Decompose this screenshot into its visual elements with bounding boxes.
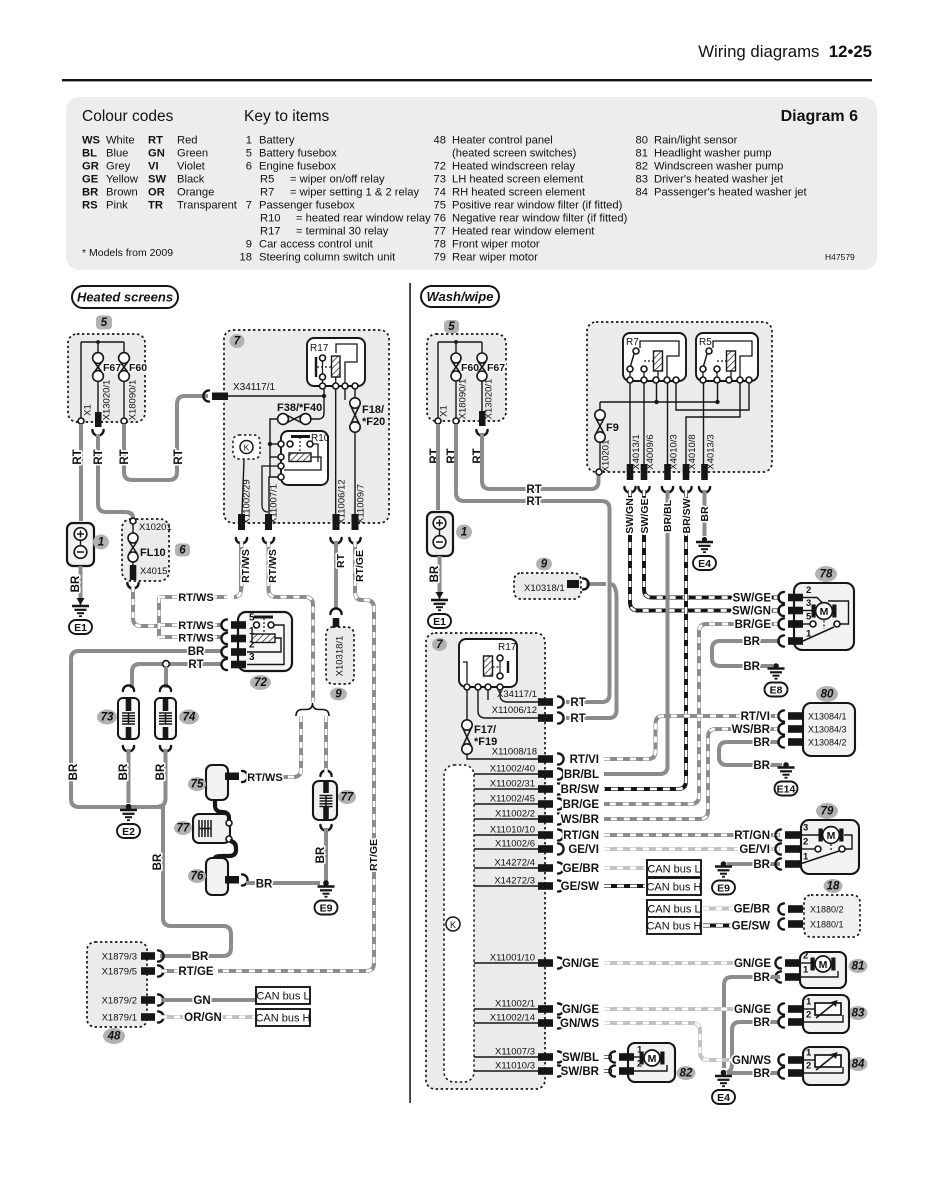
svg-text:76: 76 [191, 871, 204, 883]
svg-text:1: 1 [461, 527, 467, 539]
svg-text:X1879/2: X1879/2 [102, 996, 137, 1007]
svg-text:Heated rear window element: Heated rear window element [452, 226, 595, 238]
svg-text:6: 6 [179, 545, 186, 557]
svg-text:X4015: X4015 [140, 566, 167, 577]
svg-text:Key to items: Key to items [244, 108, 330, 125]
svg-text:Wiring diagrams 12•25: Wiring diagrams 12•25 [698, 42, 872, 61]
svg-text:X4010/3: X4010/3 [669, 434, 680, 469]
svg-text:X4009/6: X4009/6 [645, 434, 656, 469]
svg-text:Heated screens: Heated screens [77, 290, 173, 305]
svg-text:X10201: X10201 [601, 440, 612, 473]
svg-text:RS: RS [82, 200, 98, 212]
svg-text:RT: RT [570, 697, 585, 709]
svg-text:X11002/45: X11002/45 [490, 794, 535, 805]
svg-text:RT: RT [93, 449, 105, 464]
svg-text:X18090/1: X18090/1 [458, 379, 469, 420]
svg-text:RT/WS: RT/WS [267, 549, 279, 583]
svg-text:RT: RT [526, 484, 541, 496]
svg-text:Violet: Violet [177, 161, 206, 173]
svg-text:M: M [820, 606, 829, 618]
svg-text:76: 76 [434, 213, 446, 225]
svg-text:77: 77 [341, 792, 354, 804]
svg-text:RT: RT [188, 659, 203, 671]
svg-text:3: 3 [803, 823, 808, 834]
svg-text:78: 78 [434, 239, 446, 251]
svg-text:RT/WS: RT/WS [247, 772, 282, 784]
svg-text:78: 78 [820, 569, 833, 581]
svg-text:E9: E9 [717, 882, 730, 894]
svg-text:BR: BR [743, 661, 760, 673]
svg-text:2: 2 [806, 585, 811, 596]
svg-text:E4: E4 [717, 1092, 730, 1104]
svg-text:E2: E2 [122, 826, 135, 838]
svg-text:H47579: H47579 [825, 252, 855, 262]
svg-text:GN: GN [193, 995, 210, 1007]
svg-text:9: 9 [335, 689, 342, 701]
svg-text:BR: BR [429, 565, 441, 582]
svg-text:2: 2 [803, 951, 808, 962]
svg-text:84: 84 [852, 1059, 865, 1071]
svg-text:SW/GE: SW/GE [639, 498, 651, 533]
svg-text:GN/GE: GN/GE [734, 1004, 771, 1016]
svg-text:* Models from 2009: * Models from 2009 [82, 247, 173, 259]
svg-text:X1879/3: X1879/3 [102, 952, 137, 963]
svg-text:BR: BR [315, 846, 327, 863]
svg-text:E14: E14 [777, 783, 796, 795]
svg-text:81: 81 [636, 148, 648, 160]
svg-text:R17: R17 [310, 343, 329, 354]
svg-text:RT/WS: RT/WS [178, 620, 213, 632]
svg-text:= terminal 30 relay: = terminal 30 relay [296, 226, 389, 238]
svg-text:3: 3 [249, 652, 255, 663]
svg-text:X11002/6: X11002/6 [495, 839, 535, 850]
svg-text:R10: R10 [311, 433, 330, 444]
svg-text:1: 1 [98, 537, 104, 549]
svg-text:RT/WS: RT/WS [178, 633, 213, 645]
svg-text:RT/WS: RT/WS [240, 549, 252, 583]
svg-text:9: 9 [541, 559, 548, 571]
svg-text:GE: GE [82, 174, 99, 186]
svg-text:GN/WS: GN/WS [560, 1018, 599, 1030]
svg-text:BR/GE: BR/GE [563, 799, 600, 811]
svg-text:2: 2 [806, 1061, 811, 1072]
svg-text:GE/SW: GE/SW [561, 881, 599, 893]
svg-text:BR: BR [753, 737, 770, 749]
svg-text:X11002/14: X11002/14 [490, 1013, 535, 1024]
svg-text:GN/GE: GN/GE [562, 958, 599, 970]
svg-text:X10318/1: X10318/1 [335, 636, 346, 677]
svg-text:RT: RT [173, 449, 185, 464]
svg-text:X11002/2: X11002/2 [495, 809, 535, 820]
svg-text:80: 80 [636, 135, 648, 147]
svg-text:X11008/18: X11008/18 [492, 747, 537, 758]
svg-text:X11007/3: X11007/3 [495, 1047, 535, 1058]
svg-text:CAN bus H: CAN bus H [646, 882, 701, 894]
svg-text:BL: BL [82, 148, 97, 160]
svg-text:RT: RT [72, 449, 84, 464]
svg-text:83: 83 [852, 1008, 865, 1020]
svg-text:48: 48 [107, 1031, 121, 1043]
svg-text:Rear wiper motor: Rear wiper motor [452, 252, 538, 264]
svg-text:Battery: Battery [259, 135, 295, 147]
svg-text:Heated windscreen relay: Heated windscreen relay [452, 161, 576, 173]
svg-text:E8: E8 [770, 684, 783, 696]
svg-text:RT: RT [119, 449, 131, 464]
svg-text:R17: R17 [498, 642, 517, 653]
svg-text:Grey: Grey [106, 161, 131, 173]
svg-text:Steering column switch unit: Steering column switch unit [259, 252, 396, 264]
svg-text:18: 18 [240, 252, 252, 264]
svg-text:75: 75 [191, 779, 204, 791]
svg-text:E1: E1 [74, 622, 87, 634]
svg-text:3: 3 [806, 598, 811, 609]
svg-text:M: M [819, 959, 828, 971]
svg-text:RH heated screen element: RH heated screen element [452, 187, 586, 199]
svg-text:RT/VI: RT/VI [570, 754, 599, 766]
svg-text:X1: X1 [83, 404, 94, 416]
svg-text:1: 1 [803, 965, 809, 976]
svg-text:GE/SW: GE/SW [732, 921, 770, 933]
svg-text:E4: E4 [698, 558, 711, 570]
svg-text:K: K [244, 443, 250, 453]
svg-text:7: 7 [436, 639, 443, 651]
svg-text:GR: GR [82, 161, 99, 173]
svg-text:SW/BL: SW/BL [562, 1052, 599, 1064]
svg-text:Blue: Blue [106, 148, 128, 160]
svg-text:F67: F67 [487, 362, 505, 374]
svg-text:CAN bus L: CAN bus L [256, 991, 309, 1003]
svg-text:7: 7 [234, 336, 241, 348]
svg-text:X11010/10: X11010/10 [490, 825, 535, 836]
svg-text:Passenger fusebox: Passenger fusebox [259, 200, 355, 212]
svg-text:BR: BR [155, 763, 167, 780]
svg-text:X13084/3: X13084/3 [808, 725, 847, 735]
svg-text:Colour codes: Colour codes [82, 108, 174, 125]
svg-text:BR: BR [753, 859, 770, 871]
svg-text:GE/BR: GE/BR [563, 863, 600, 875]
svg-text:Driver's heated washer jet: Driver's heated washer jet [654, 174, 784, 186]
svg-text:5: 5 [101, 317, 108, 329]
svg-text:X14272/3: X14272/3 [494, 876, 535, 887]
svg-text:Diagram 6: Diagram 6 [781, 108, 858, 125]
svg-text:Battery fusebox: Battery fusebox [259, 148, 337, 160]
svg-text:X11010/3: X11010/3 [495, 1061, 535, 1072]
svg-text:CAN bus L: CAN bus L [647, 864, 700, 876]
svg-text:RT: RT [335, 553, 347, 568]
svg-text:80: 80 [821, 689, 834, 701]
svg-text:X13020/1: X13020/1 [102, 380, 113, 421]
svg-text:F38/*F40: F38/*F40 [277, 402, 322, 414]
svg-text:Wash/wipe: Wash/wipe [427, 289, 494, 304]
svg-text:CAN bus H: CAN bus H [646, 921, 701, 933]
svg-text:RT/WS: RT/WS [178, 592, 213, 604]
svg-text:CAN bus H: CAN bus H [255, 1013, 310, 1025]
svg-text:75: 75 [434, 200, 446, 212]
svg-text:BR: BR [753, 1068, 770, 1080]
svg-text:82: 82 [636, 161, 648, 173]
svg-text:E1: E1 [433, 616, 446, 628]
svg-text:74: 74 [434, 187, 446, 199]
svg-text:73: 73 [434, 174, 446, 186]
svg-text:R5: R5 [699, 337, 712, 348]
svg-text:79: 79 [821, 806, 834, 818]
svg-text:SW/GN: SW/GN [732, 606, 771, 618]
svg-text:BR/SW: BR/SW [681, 498, 693, 533]
svg-text:RT/VI: RT/VI [741, 711, 770, 723]
svg-text:X1: X1 [439, 405, 450, 417]
svg-text:X11009/7: X11009/7 [356, 484, 367, 524]
svg-text:R7: R7 [260, 187, 274, 199]
svg-text:F18/: F18/ [362, 404, 384, 416]
svg-text:BR: BR [753, 760, 770, 772]
svg-text:X1880/1: X1880/1 [810, 920, 844, 930]
svg-text:SW: SW [148, 174, 166, 186]
svg-text:X4010/8: X4010/8 [687, 434, 698, 469]
svg-text:F67: F67 [103, 362, 121, 374]
svg-text:X1879/1: X1879/1 [102, 1013, 137, 1024]
svg-text:M: M [648, 1053, 657, 1065]
svg-text:LH heated screen element: LH heated screen element [452, 174, 584, 186]
svg-text:OR/GN: OR/GN [184, 1012, 222, 1024]
svg-text:Yellow: Yellow [106, 174, 139, 186]
svg-text:81: 81 [852, 961, 865, 973]
svg-text:RT/GN: RT/GN [563, 830, 599, 842]
svg-text:R17: R17 [260, 226, 281, 238]
svg-text:X18090/1: X18090/1 [128, 380, 139, 421]
svg-text:BR/BL: BR/BL [662, 499, 674, 532]
svg-text:WS/BR: WS/BR [732, 724, 771, 736]
svg-text:F60: F60 [129, 362, 147, 374]
svg-text:BR: BR [699, 506, 711, 522]
svg-text:RT: RT [526, 496, 541, 508]
svg-text:RT/GN: RT/GN [734, 830, 770, 842]
svg-text:Green: Green [177, 148, 208, 160]
svg-text:FL10: FL10 [140, 547, 166, 559]
svg-text:BR/GE: BR/GE [735, 619, 772, 631]
svg-text:BR: BR [152, 853, 164, 870]
svg-text:X11007/1: X11007/1 [269, 484, 280, 524]
svg-text:X11002/40: X11002/40 [490, 764, 535, 775]
svg-text:R5: R5 [260, 174, 274, 186]
svg-text:BR/SW: BR/SW [561, 784, 599, 796]
svg-text:79: 79 [434, 252, 446, 264]
svg-text:BR/BL: BR/BL [564, 769, 599, 781]
svg-text:Red: Red [177, 135, 198, 147]
svg-text:R10: R10 [260, 213, 281, 225]
svg-text:1: 1 [806, 997, 812, 1008]
svg-text:2: 2 [806, 1010, 811, 1021]
svg-text:M: M [827, 830, 836, 842]
svg-text:Brown: Brown [106, 187, 138, 199]
svg-text:BR: BR [188, 646, 205, 658]
svg-text:OR: OR [148, 187, 165, 199]
svg-text:GN/WS: GN/WS [732, 1055, 771, 1067]
svg-text:GE/BR: GE/BR [734, 904, 771, 916]
svg-text:5: 5 [448, 321, 455, 333]
svg-text:BR: BR [70, 575, 82, 592]
svg-text:77: 77 [177, 823, 190, 835]
svg-text:X11001/10: X11001/10 [490, 953, 535, 964]
svg-text:K: K [450, 920, 456, 930]
svg-text:X11006/12: X11006/12 [492, 705, 537, 716]
svg-text:Windscreen washer pump: Windscreen washer pump [654, 161, 783, 173]
svg-text:RT: RT [570, 713, 585, 725]
svg-text:X1880/2: X1880/2 [810, 905, 844, 915]
svg-text:82: 82 [680, 1068, 693, 1080]
svg-text:18: 18 [827, 881, 840, 893]
svg-text:White: White [106, 135, 135, 147]
svg-text:X14272/4: X14272/4 [494, 858, 535, 869]
svg-text:= wiper setting 1 & 2 relay: = wiper setting 1 & 2 relay [290, 187, 419, 199]
svg-text:7: 7 [246, 200, 252, 212]
svg-text:X13084/1: X13084/1 [808, 712, 847, 722]
svg-text:RT/GE: RT/GE [178, 966, 213, 978]
svg-text:X11002/29: X11002/29 [242, 479, 253, 524]
svg-text:Pink: Pink [106, 200, 128, 212]
svg-text:Passenger's heated washer jet: Passenger's heated washer jet [654, 187, 808, 199]
svg-text:BR: BR [68, 763, 80, 780]
svg-text:X11002/1: X11002/1 [495, 999, 535, 1010]
svg-text:X10201: X10201 [139, 522, 172, 533]
svg-text:GE/VI: GE/VI [739, 844, 770, 856]
svg-text:GN/GE: GN/GE [734, 958, 771, 970]
svg-text:X4013/3: X4013/3 [706, 434, 717, 469]
svg-text:R7: R7 [626, 337, 639, 348]
svg-text:84: 84 [636, 187, 648, 199]
svg-text:F17/: F17/ [474, 724, 496, 736]
svg-text:5: 5 [246, 148, 252, 160]
svg-text:F60: F60 [461, 362, 479, 374]
svg-text:RT: RT [148, 135, 163, 147]
svg-text:72: 72 [254, 677, 267, 689]
svg-text:X1879/5: X1879/5 [102, 967, 137, 978]
svg-text:X10318/1: X10318/1 [524, 583, 565, 594]
svg-text:F9: F9 [606, 422, 619, 434]
svg-text:1: 1 [806, 1048, 812, 1059]
svg-text:77: 77 [434, 226, 446, 238]
svg-text:(heated screen switches): (heated screen switches) [452, 148, 577, 160]
svg-text:TR: TR [148, 200, 163, 212]
svg-text:1: 1 [246, 135, 252, 147]
svg-text:Transparent: Transparent [177, 200, 238, 212]
svg-text:72: 72 [434, 161, 446, 173]
svg-text:BR: BR [118, 763, 130, 780]
svg-text:BR: BR [82, 187, 98, 199]
svg-text:Black: Black [177, 174, 205, 186]
svg-text:CAN bus L: CAN bus L [647, 904, 700, 916]
svg-text:BR: BR [192, 951, 209, 963]
svg-text:RT/GE: RT/GE [354, 550, 366, 582]
svg-text:Car access control unit: Car access control unit [259, 239, 374, 251]
svg-text:Headlight washer pump: Headlight washer pump [654, 148, 772, 160]
svg-text:74: 74 [183, 712, 196, 724]
svg-text:Engine fusebox: Engine fusebox [259, 161, 337, 173]
svg-text:= heated rear window relay: = heated rear window relay [296, 213, 431, 225]
svg-text:SW/BR: SW/BR [561, 1066, 600, 1078]
svg-text:BR: BR [753, 1017, 770, 1029]
svg-text:BR: BR [753, 972, 770, 984]
svg-text:WS: WS [82, 135, 101, 147]
svg-text:X34117/1: X34117/1 [497, 689, 537, 700]
svg-text:BR: BR [743, 636, 760, 648]
svg-text:VI: VI [148, 161, 159, 173]
svg-text:2: 2 [803, 837, 808, 848]
svg-text:Orange: Orange [177, 187, 214, 199]
svg-text:GN/GE: GN/GE [562, 1004, 599, 1016]
svg-text:BR: BR [256, 879, 273, 891]
svg-text:48: 48 [434, 135, 446, 147]
svg-text:83: 83 [636, 174, 648, 186]
svg-text:SW/GE: SW/GE [733, 593, 772, 605]
svg-text:WS/BR: WS/BR [561, 814, 600, 826]
svg-text:X13084/2: X13084/2 [808, 738, 847, 748]
svg-text:Negative rear window filter (i: Negative rear window filter (if fitted) [452, 213, 628, 225]
svg-text:X11002/31: X11002/31 [490, 779, 535, 790]
svg-text:Front wiper motor: Front wiper motor [452, 239, 540, 251]
svg-text:Rain/light sensor: Rain/light sensor [654, 135, 738, 147]
svg-text:9: 9 [246, 239, 252, 251]
svg-text:GE/VI: GE/VI [568, 844, 599, 856]
svg-text:X34117/1: X34117/1 [233, 382, 276, 393]
svg-text:Heater control panel: Heater control panel [452, 135, 553, 147]
svg-text:6: 6 [246, 161, 252, 173]
svg-text:X11006/12: X11006/12 [337, 479, 348, 524]
svg-text:73: 73 [101, 712, 114, 724]
svg-text:Positive rear window filter (i: Positive rear window filter (if fitted) [452, 200, 623, 212]
svg-text:X4013/1: X4013/1 [631, 434, 642, 469]
svg-text:E9: E9 [320, 902, 333, 914]
svg-text:SW/GN: SW/GN [624, 498, 636, 534]
svg-text:*F20: *F20 [362, 416, 385, 428]
svg-text:= wiper on/off relay: = wiper on/off relay [290, 174, 385, 186]
svg-text:RT/GE: RT/GE [368, 839, 380, 871]
svg-text:GN: GN [148, 148, 165, 160]
